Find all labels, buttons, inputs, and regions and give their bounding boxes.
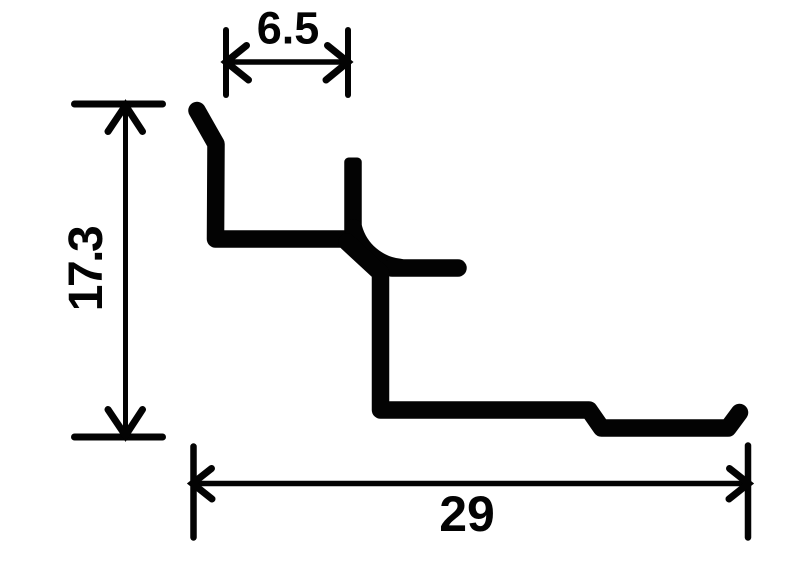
dim 17.3 bottom arrowhead <box>108 410 143 436</box>
profile diagonal + lower vertical + bottom flange + end lip <box>347 242 740 428</box>
dim 6.5 left arrowhead <box>226 46 249 81</box>
dim 29 right arrowhead <box>729 469 749 500</box>
dim 6.5 right arrowhead <box>326 46 348 81</box>
dim 17.3 bottom tick <box>75 434 163 441</box>
profile fillet curve <box>354 228 401 268</box>
profile second arm <box>392 259 458 277</box>
dim 29 line <box>195 481 746 487</box>
dim 17.3 top arrowhead <box>108 106 143 132</box>
dim 6.5 right tick <box>345 30 351 95</box>
dim 6.5 line <box>227 59 347 65</box>
dim 17.3 top tick <box>75 101 163 108</box>
svg-text:29: 29 <box>439 486 495 542</box>
profile lip + left web + upper arm <box>197 111 352 240</box>
dim 29 left arrowhead <box>193 469 213 500</box>
svg-text:17.3: 17.3 <box>60 227 113 311</box>
dim 17.3 line <box>123 106 128 435</box>
dim 29 right tick <box>745 446 752 538</box>
dim 6.5 left tick <box>223 30 229 95</box>
svg-text:6.5: 6.5 <box>257 3 320 54</box>
profile vertical stub <box>344 158 362 248</box>
dim 29 left tick <box>190 447 197 538</box>
